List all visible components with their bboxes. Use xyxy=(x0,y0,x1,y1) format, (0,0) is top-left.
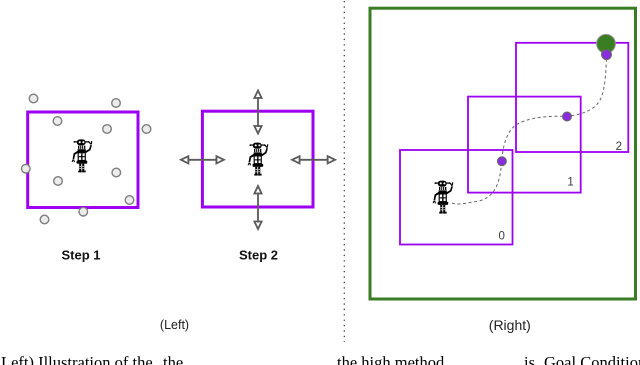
svg-text:Left) Illustration of the: Left) Illustration of the xyxy=(1,353,153,365)
svg-text:(Left): (Left) xyxy=(160,318,189,332)
svg-text:Goal Conditioned: Goal Conditioned xyxy=(544,353,640,365)
svg-text:1: 1 xyxy=(567,177,573,189)
svg-text:the: the xyxy=(163,353,183,365)
svg-text:Step 1: Step 1 xyxy=(61,248,100,263)
svg-text:0: 0 xyxy=(498,231,504,243)
svg-text:the high method: the high method xyxy=(337,353,445,365)
svg-text:(Right): (Right) xyxy=(489,317,531,333)
svg-text:2: 2 xyxy=(616,141,622,153)
svg-text:is: is xyxy=(524,353,535,365)
svg-text:Step 2: Step 2 xyxy=(239,248,278,263)
